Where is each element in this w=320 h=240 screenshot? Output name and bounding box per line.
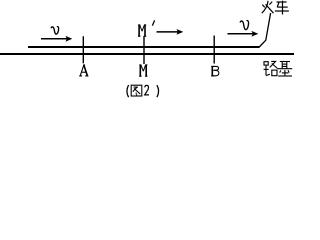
label B (211, 66, 219, 76)
label 路 (roadbed char 1) (264, 61, 278, 75)
label v (right velocity, italic) (240, 21, 249, 30)
label （ of caption (127, 85, 129, 97)
label M (ground observer) (139, 65, 147, 77)
label A (79, 65, 88, 76)
label 基 (roadbed char 2) (278, 61, 292, 76)
node M tick (143, 36, 145, 64)
prime mark of M' (152, 20, 154, 25)
label 车 (train char 2) (275, 1, 289, 15)
wire: roadbed line (lower horizontal, full width) (0, 53, 294, 55)
label M' (train observer) (138, 25, 146, 37)
node B tick (213, 36, 215, 64)
label v (left velocity, italic) (51, 27, 59, 35)
arrow under left v (41, 38, 67, 40)
node A tick (82, 36, 84, 63)
label 2 of caption (145, 85, 149, 95)
wire: train line (upper horizontal) (28, 46, 259, 48)
wire: diagonal leader to train label (259, 13, 271, 48)
arrow after M' (157, 31, 179, 33)
arrow under right v (228, 33, 254, 35)
label 火 (train char 1) (262, 1, 274, 13)
label 图 of caption (131, 85, 142, 96)
label ） of caption (157, 85, 159, 97)
